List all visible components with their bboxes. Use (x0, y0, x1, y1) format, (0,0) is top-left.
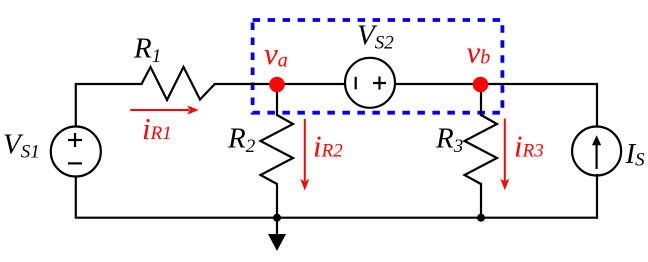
wire: bottom rail right (481, 217, 597, 219)
node a (red dot) (269, 77, 285, 93)
label R3 (435, 123, 463, 158)
resistor R1 (142, 67, 215, 100)
junction dot (ground node) (273, 214, 281, 222)
voltage source VS1 (51, 127, 101, 177)
wire: IS bottom to bottom rail (596, 175, 598, 218)
current arrow iR2 (300, 119, 309, 191)
wire: node a down to R2 (276, 84, 278, 115)
wire: R1 to VS2 left terminal (through node a) (215, 83, 345, 85)
wire: R2 bottom to ground node (276, 184, 278, 218)
resistor R3 (465, 115, 498, 184)
label IS (625, 138, 646, 171)
wire: VS1 bottom to bottom-left corner (76, 177, 277, 218)
wire top-left: VS1 top to R1 (76, 84, 142, 126)
resistor R2 (261, 115, 294, 184)
current arrow iR3 (500, 119, 509, 191)
label vb (467, 35, 491, 70)
ground (268, 218, 286, 251)
current arrow iR1 (130, 106, 199, 115)
label VS1 (3, 129, 40, 163)
label VS2 (357, 20, 394, 54)
supernode boundary (blue dashed box) (253, 20, 503, 113)
current source IS (572, 127, 621, 176)
wire: bottom rail middle (277, 217, 481, 219)
label R1 (133, 33, 161, 68)
wire: R3 bottom to bottom rail (480, 184, 482, 218)
junction dot (R3 bottom) (477, 214, 485, 222)
node b (red dot) (473, 77, 489, 93)
label va (264, 36, 288, 72)
voltage source VS2 (345, 58, 395, 108)
label iR2 (313, 129, 343, 164)
wire: node b down to R3 (480, 84, 482, 115)
label iR1 (142, 111, 172, 146)
label R2 (227, 123, 256, 158)
label iR3 (514, 129, 544, 164)
wire: VS2 right terminal to top-right corner (through node b) (395, 84, 597, 127)
